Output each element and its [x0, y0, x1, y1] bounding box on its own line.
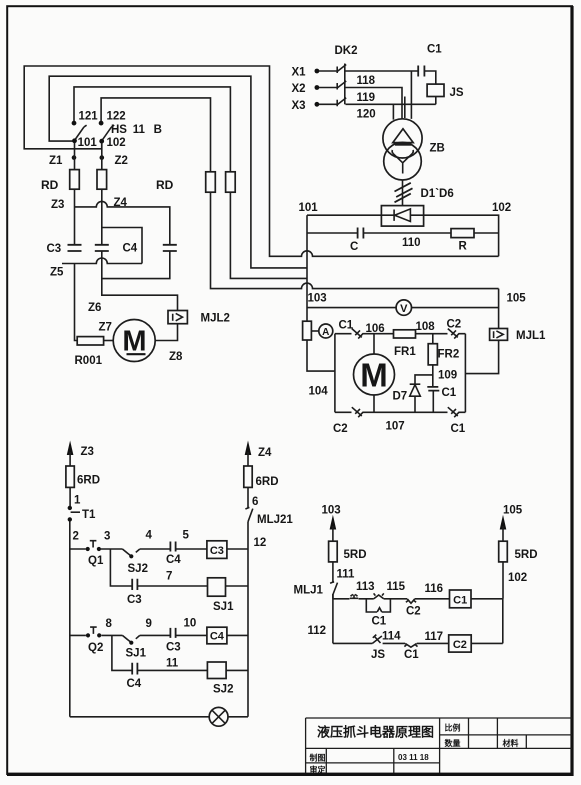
- svg-text:C1: C1: [339, 320, 354, 332]
- svg-text:11: 11: [133, 124, 146, 136]
- fuse RD left (Z1-Z3): [70, 170, 80, 190]
- svg-text:122: 122: [107, 111, 126, 123]
- svg-text:10: 10: [184, 618, 197, 630]
- svg-text:ZB: ZB: [430, 143, 445, 155]
- wire 119: [346, 88, 405, 119]
- svg-text:Z4: Z4: [258, 447, 272, 459]
- fuse 6RD left: [66, 466, 74, 487]
- relay MJL2 box: [168, 311, 187, 324]
- contact JS (time delay): [372, 635, 382, 644]
- svg-text:5: 5: [183, 530, 190, 542]
- terminal X3: [315, 102, 320, 107]
- pushbutton Q1: [86, 547, 90, 551]
- svg-text:R: R: [459, 241, 468, 253]
- svg-text:C1: C1: [453, 594, 467, 606]
- motor M right: [373, 334, 375, 413]
- wire fuse to Z4 contact: [101, 189, 103, 244]
- contact C2 (bottom left of motor box): [352, 407, 363, 417]
- svg-text:V: V: [400, 303, 408, 315]
- svg-text:比例: 比例: [445, 723, 461, 733]
- svg-text:Z5: Z5: [50, 267, 64, 279]
- svg-text:C2: C2: [333, 423, 348, 435]
- svg-text:7: 7: [166, 571, 172, 583]
- terminal X2: [315, 85, 320, 90]
- svg-text:C1: C1: [442, 387, 457, 399]
- row2 wire: [333, 642, 503, 644]
- wire 104 to motor box: [307, 340, 335, 371]
- left rail down: [69, 521, 71, 716]
- HS contact dots: [72, 121, 77, 126]
- svg-text:4: 4: [146, 530, 153, 542]
- svg-text:103: 103: [308, 293, 327, 305]
- motor box bottom rail: [335, 411, 466, 413]
- svg-text:C3: C3: [166, 642, 181, 654]
- wire 112 vertical: [332, 594, 334, 643]
- svg-text:117: 117: [425, 631, 444, 643]
- pushbutton Q2: [86, 633, 90, 637]
- wire Z6 line to MJL2: [102, 279, 178, 311]
- svg-text:121: 121: [79, 111, 99, 123]
- svg-text:C1: C1: [372, 616, 387, 628]
- svg-text:Z4: Z4: [114, 197, 128, 209]
- fuse 5RD right: [499, 541, 508, 562]
- svg-text:6RD: 6RD: [256, 476, 279, 488]
- svg-text:Z6: Z6: [88, 302, 101, 314]
- resistor R001: [77, 337, 103, 345]
- rung 2 wire: [70, 634, 248, 636]
- resistor FR1: [394, 330, 416, 338]
- svg-text:D7: D7: [393, 391, 408, 403]
- svg-text:Z8: Z8: [169, 351, 183, 363]
- contact C3 (rung2): [170, 628, 175, 638]
- svg-text:12: 12: [254, 537, 267, 549]
- svg-text:104: 104: [309, 386, 329, 398]
- svg-text:Z7: Z7: [99, 322, 112, 334]
- svg-text:118: 118: [357, 75, 376, 87]
- svg-text:SJ1: SJ1: [213, 601, 234, 613]
- svg-text:C4: C4: [127, 678, 142, 690]
- wire contact bottoms to Z6: [102, 251, 170, 278]
- ammeter A: [311, 330, 319, 332]
- voltmeter V: [396, 300, 411, 315]
- svg-text:X3: X3: [292, 100, 306, 112]
- svg-text:Z1: Z1: [49, 155, 63, 167]
- contact C3 (Z3-Z5): [68, 245, 82, 251]
- svg-text:116: 116: [425, 583, 444, 595]
- coil C4 box: [207, 627, 227, 644]
- coil C3 box: [207, 541, 227, 559]
- svg-text:106: 106: [366, 323, 385, 335]
- wire Z2 to fuse: [101, 143, 103, 170]
- wire Z5 line: [62, 258, 142, 264]
- wire MJL1 down to motor box right: [465, 340, 498, 373]
- contact C1 (bottom right of motor box): [448, 407, 459, 417]
- diode D7: [410, 375, 433, 412]
- svg-text:112: 112: [308, 625, 327, 637]
- svg-text:119: 119: [357, 92, 376, 104]
- wire 102 rail: [424, 215, 499, 256]
- svg-text:114: 114: [382, 631, 401, 643]
- fuse RD on wire 122: [206, 172, 216, 192]
- motor box left vertical: [334, 334, 336, 413]
- svg-text:HS: HS: [111, 124, 127, 136]
- fuse RD on wire 121: [226, 172, 236, 192]
- fuse 5RD left: [329, 541, 338, 562]
- svg-text:T1: T1: [82, 509, 96, 521]
- contact C1 (row2): [404, 643, 417, 647]
- contact at 113: [350, 594, 358, 598]
- contact C4 right (Z3-Z6): [163, 245, 177, 251]
- svg-text:SJ2: SJ2: [128, 563, 148, 575]
- svg-text:Z3: Z3: [81, 446, 94, 458]
- svg-text:C2: C2: [453, 639, 467, 651]
- svg-text:M: M: [360, 357, 388, 394]
- svg-text:102: 102: [107, 137, 126, 149]
- svg-text:9: 9: [146, 618, 152, 630]
- svg-text:Q1: Q1: [88, 555, 104, 567]
- svg-text:A: A: [322, 327, 329, 338]
- svg-text:数量: 数量: [445, 738, 461, 748]
- svg-text:103: 103: [322, 505, 341, 517]
- node Z1: [72, 155, 77, 160]
- shunt on 101 vertical: [303, 321, 312, 340]
- contact C4 (rung1): [170, 542, 175, 552]
- svg-text:MJL1: MJL1: [516, 330, 546, 342]
- svg-text:JS: JS: [371, 649, 385, 661]
- motor box right vertical: [464, 334, 466, 413]
- wire 120: [346, 104, 436, 119]
- arrow Z3: [67, 441, 74, 456]
- svg-text:C: C: [350, 241, 358, 253]
- node 102 bottom: [502, 562, 504, 599]
- wire fuse to Z3 node and contact C3: [74, 189, 76, 244]
- svg-text:102: 102: [492, 202, 511, 214]
- svg-text:Z3: Z3: [51, 199, 64, 211]
- svg-text:8: 8: [106, 618, 113, 630]
- node 109: [432, 365, 434, 387]
- capacitor C1 (motor box): [427, 387, 439, 391]
- contact MLJ21: [245, 507, 252, 521]
- svg-text:DK2: DK2: [335, 45, 358, 57]
- wire JS to 120 line: [435, 97, 437, 105]
- svg-text:C1: C1: [404, 649, 419, 661]
- svg-text:MLJ1: MLJ1: [294, 585, 324, 597]
- svg-text:03 11 18: 03 11 18: [398, 753, 429, 762]
- contact C4 middle (Z4-Z6): [95, 245, 109, 251]
- capacitor C1 (top): [418, 66, 424, 77]
- svg-text:6: 6: [252, 496, 258, 508]
- svg-text:108: 108: [416, 321, 436, 333]
- resistor R: [451, 229, 474, 238]
- svg-text:X1: X1: [292, 67, 307, 79]
- fuse 6RD right: [244, 466, 252, 487]
- svg-text:110: 110: [402, 237, 421, 249]
- svg-text:RD: RD: [41, 178, 59, 192]
- svg-text:C4: C4: [210, 631, 225, 643]
- svg-text:3: 3: [104, 531, 110, 543]
- title block frame: [306, 718, 572, 773]
- svg-text:Q2: Q2: [88, 642, 103, 654]
- coil C2 box: [449, 635, 472, 652]
- wire 101 rail: [307, 214, 381, 216]
- wire 121 from HS contact 121 down to 101 vertical: [74, 87, 307, 279]
- relay JS box: [427, 84, 444, 96]
- switch T1: [68, 506, 72, 510]
- svg-text:R001: R001: [75, 355, 103, 367]
- svg-text:X2: X2: [292, 83, 306, 95]
- svg-text:6RD: 6RD: [77, 475, 100, 487]
- relay MJL1 box: [490, 329, 508, 341]
- node 111: [332, 562, 334, 583]
- svg-text:111: 111: [337, 569, 356, 581]
- wire 122 / node 103 line: [101, 98, 499, 289]
- svg-text:2: 2: [73, 531, 79, 543]
- svg-text:105: 105: [507, 293, 527, 305]
- wire C1 to JS: [424, 71, 435, 84]
- wire Z4 branch loop to Z5 line: [102, 228, 142, 264]
- svg-text:RD: RD: [156, 178, 174, 192]
- svg-text:5RD: 5RD: [344, 549, 367, 561]
- svg-text:1: 1: [74, 495, 81, 507]
- wire 105 vertical to MJL1: [498, 289, 500, 329]
- contact SJ1 (time delay): [122, 635, 139, 642]
- rung 1 wire: [70, 548, 248, 550]
- svg-text:C1: C1: [427, 44, 442, 56]
- contact C1 (top left of motor box): [352, 329, 363, 339]
- svg-text:C4: C4: [166, 554, 181, 566]
- svg-text:制图: 制图: [310, 753, 326, 763]
- svg-text:C3: C3: [210, 545, 224, 557]
- svg-text:C1: C1: [451, 423, 466, 435]
- svg-text:105: 105: [503, 505, 523, 517]
- wire 118: [346, 71, 419, 119]
- arrow 105: [500, 515, 507, 530]
- svg-text:5RD: 5RD: [515, 549, 538, 561]
- svg-text:材料: 材料: [503, 738, 519, 748]
- svg-text:11: 11: [166, 658, 179, 670]
- svg-text:101: 101: [78, 137, 98, 149]
- wire MJL2 to motor Z8: [155, 324, 177, 341]
- svg-text:MLJ21: MLJ21: [257, 514, 293, 526]
- svg-text:Z2: Z2: [115, 155, 128, 167]
- svg-text:SJ1: SJ1: [126, 648, 147, 660]
- terminal X1: [315, 69, 320, 74]
- svg-text:SJ2: SJ2: [213, 684, 233, 696]
- indicator lamp: [70, 716, 248, 718]
- svg-text:FR2: FR2: [438, 349, 460, 361]
- rectifier D1-D6 box: [381, 206, 423, 227]
- svg-text:102: 102: [508, 572, 527, 584]
- contact above C1 loop: [374, 593, 384, 598]
- snubber row: capacitor C: [307, 232, 451, 234]
- contact SJ2 (time delay): [122, 549, 139, 556]
- branch 11: C4 holding contact to SJ2: [112, 635, 248, 670]
- contact C2 (row1): [406, 599, 416, 604]
- svg-text:MJL2: MJL2: [201, 313, 230, 325]
- wire Z3 line to right contact: [75, 201, 170, 244]
- svg-text:120: 120: [357, 108, 376, 120]
- wire R001 to motor: [104, 340, 114, 342]
- transformer ZB: [383, 119, 422, 158]
- contact C2 (top right of motor box): [448, 329, 459, 339]
- svg-text:C3: C3: [47, 243, 62, 255]
- svg-text:M: M: [122, 326, 146, 358]
- branch 7: C3 holding contact to SJ1: [110, 549, 248, 586]
- branch FR2: [432, 334, 434, 344]
- wire above rung1 to MLJ21 and fuse: [247, 487, 249, 549]
- arrow 103: [330, 515, 337, 530]
- svg-text:B: B: [154, 124, 162, 136]
- svg-text:113: 113: [356, 581, 375, 593]
- svg-text:FR1: FR1: [394, 346, 416, 358]
- motor box top rail: [335, 333, 466, 335]
- svg-text:JS: JS: [450, 87, 464, 99]
- motor M1 hoist: [113, 320, 155, 362]
- svg-text:101: 101: [299, 202, 319, 214]
- svg-text:D1`D6: D1`D6: [421, 188, 454, 200]
- svg-text:115: 115: [387, 581, 406, 593]
- svg-text:C3: C3: [127, 594, 142, 606]
- svg-text:C2: C2: [447, 319, 462, 331]
- coil SJ2 box: [207, 662, 226, 679]
- node Z2: [100, 155, 105, 160]
- right rail of ladder: [247, 549, 249, 717]
- wire Z5 down to R001: [75, 264, 78, 341]
- svg-text:C2: C2: [406, 606, 421, 618]
- svg-text:C4: C4: [123, 243, 138, 255]
- fuse RD right (Z2-Z4): [97, 170, 107, 190]
- wire 101 from HS contact 101 around to rectifier 101 vertical: [49, 76, 307, 268]
- contact MLJ1: [330, 582, 337, 599]
- wire transformer to rectifier with winding slashes D1-D6: [402, 180, 404, 206]
- arrow Z4: [245, 441, 252, 456]
- svg-text:109: 109: [438, 370, 457, 382]
- vertical 101 down to shunt: [306, 215, 308, 321]
- row1 wire: [333, 598, 503, 600]
- node 1: [69, 487, 71, 506]
- svg-text:审定: 审定: [310, 765, 326, 775]
- wire 102 loop from HS contact 102 around left to rectifier 102 rail: [24, 66, 498, 256]
- parallel loop with contact C1: [366, 599, 390, 612]
- voltmeter V line: [307, 307, 499, 309]
- wire Z1 to fuse: [74, 143, 76, 170]
- coil C1 box: [450, 590, 472, 608]
- svg-text:液压抓斗电器原理图: 液压抓斗电器原理图: [317, 725, 434, 740]
- coil SJ1 box: [208, 578, 226, 596]
- svg-text:107: 107: [386, 421, 405, 433]
- master controller HS blades: [75, 125, 87, 140]
- right vertical row1-row2: [502, 599, 504, 644]
